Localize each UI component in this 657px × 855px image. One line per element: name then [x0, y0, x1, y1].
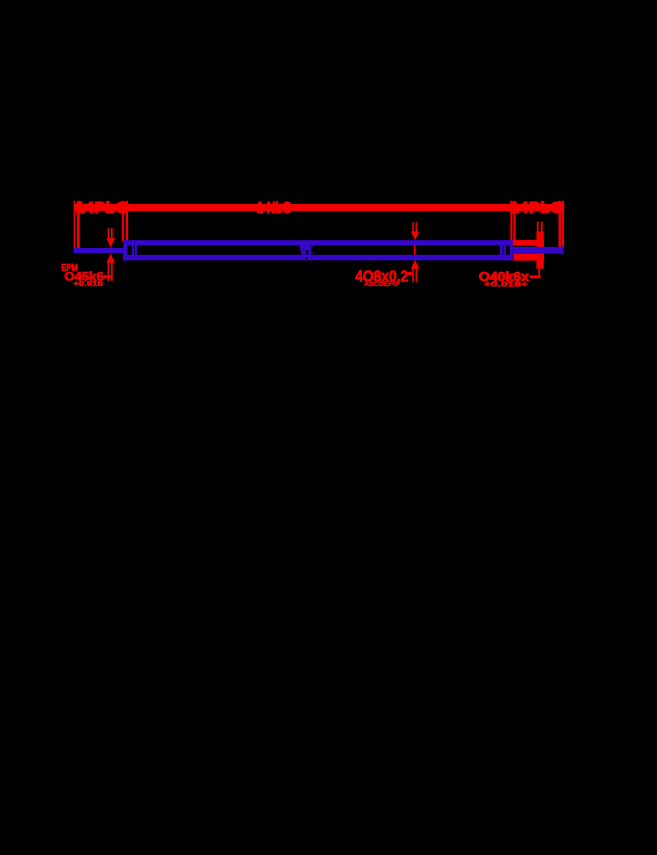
svg-text:+0.018: +0.018 [73, 281, 103, 288]
dimension text right (span) [510, 200, 564, 217]
tube bottom wall [123, 255, 512, 260]
left journal label text row2 [64, 270, 104, 284]
tube left cap [123, 240, 127, 261]
left journal label leader [104, 275, 113, 278]
svg-text:14PbO: 14PbO [510, 200, 564, 217]
tube label leader [405, 272, 414, 275]
svg-text:+0.018+: +0.018+ [484, 281, 528, 288]
shaft left stub [74, 248, 124, 253]
dimension line top [74, 204, 565, 211]
right bearing seat lines [500, 240, 506, 260]
tube centre mark [300, 245, 315, 260]
right journal dimension bars [512, 222, 544, 279]
left journal diameter dimension line [107, 228, 115, 281]
extension lines at tube right cap [510, 201, 515, 241]
right journal label leader [530, 275, 541, 278]
tube top wall [123, 240, 512, 245]
svg-text:14PbO: 14PbO [76, 200, 130, 217]
tube diameter dimension line middle [411, 222, 420, 282]
dimension text middle (span) [257, 200, 292, 217]
extension lines left end [74, 201, 80, 250]
dimension text left (span) [76, 200, 130, 217]
extension lines right end [559, 201, 565, 248]
tube label text [355, 268, 408, 288]
shaft right stub [513, 246, 564, 255]
left journal label text row3 [73, 281, 103, 288]
tube right cap [510, 240, 513, 261]
svg-text:1 NbO: 1 NbO [257, 200, 292, 217]
left bearing seat lines [132, 240, 137, 260]
right journal label text row2 [484, 281, 528, 288]
left journal label text row1 [61, 263, 78, 273]
right journal label text row1 [479, 269, 530, 284]
svg-text:ABCDEFG: ABCDEFG [364, 282, 398, 288]
extension lines at tube left cap [122, 201, 128, 242]
